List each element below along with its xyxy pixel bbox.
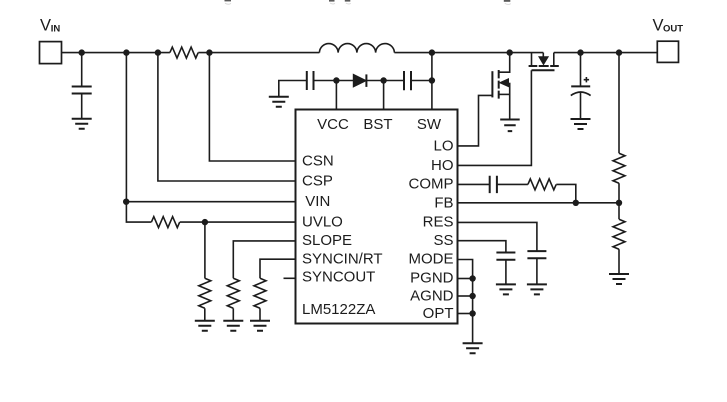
node SW rail [429,49,435,55]
ground RSLOPE [223,321,243,331]
svg-text:VIN: VIN [305,193,330,210]
node pgnd [469,275,475,281]
node fb-divider [616,200,622,206]
capacitor CRES [527,251,546,258]
IC U1 LM5122ZA box [296,110,458,324]
ground CRES [527,284,547,294]
node divider top [616,49,622,55]
ground RT [250,321,270,331]
wire UVLO to pin [180,221,296,223]
wire RUV2 drop [204,222,206,278]
capacitor COUT electrolytic [571,53,591,119]
terminal VOUT [657,41,678,62]
resistor RCOMP [528,179,556,190]
wire RUV2 to ground [204,308,206,320]
svg-text:SLOPE: SLOPE [302,232,352,249]
wire rail to switch node [394,52,543,54]
node rail-csp [155,49,161,55]
node bst [380,77,386,83]
wire HO gate lead [458,70,532,165]
svg-text:CSN: CSN [302,153,334,170]
wire diode to BST node [366,80,404,82]
label VIN [40,17,60,35]
node rail-vin [123,49,129,55]
svg-text:FB: FB [434,194,453,211]
capacitor CVCC [307,71,314,90]
svg-text:SW: SW [417,116,442,133]
resistor RUV2 [199,278,211,308]
node Q1 drain [507,49,513,55]
wire RES branch [458,222,537,251]
capacitor CBST [404,71,411,90]
label VOUT [653,17,684,35]
diode DBST [353,74,366,87]
wire input rail [62,52,320,54]
svg-text:COMP: COMP [409,176,454,193]
wire RCOMP to FB node [556,184,576,202]
wire SYNCOUT stub [284,277,296,279]
wire MODE branch [458,260,473,279]
svg-text:HO: HO [431,157,454,174]
wire SYNCIN/RT branch [260,259,296,278]
node uvlo [202,219,208,225]
svg-text:VCC: VCC [317,116,349,133]
ground RFB2 [609,274,629,284]
transistor Q2 high-side NMOS [529,53,559,71]
wire CSS to ground [505,260,507,284]
svg-text:V: V [40,17,51,35]
wire RT to ground [259,308,261,320]
pin labels right [409,138,454,323]
resistor RUV1 [151,217,179,228]
resistor RS current sense [170,47,198,58]
svg-text:SYNCOUT: SYNCOUT [302,269,375,286]
wire VCC cap left [279,81,307,97]
svg-text:CSP: CSP [302,173,333,190]
wire RFB2 to ground [618,249,620,274]
svg-text:MODE: MODE [409,251,454,268]
resistor RFB2 [613,219,625,249]
ground IC pins [463,343,483,353]
wire FB row [458,202,620,204]
svg-text:RES: RES [423,214,454,231]
wire RFB1 to FB node [618,183,620,219]
svg-text:OUT: OUT [663,23,683,34]
node opt [469,310,475,316]
ground COUT [571,119,591,129]
svg-text:V: V [653,17,664,35]
wire OPT stub [458,313,473,315]
wire FB divider top [618,53,620,154]
capacitor CCOMP [490,176,497,193]
inductor L1 [319,44,394,53]
wire SW pin [431,53,433,110]
pin labels left [302,153,383,318]
svg-text:BST: BST [363,116,392,133]
ground RUV2 [195,321,215,331]
wire AGND stub [458,295,473,297]
wire CSN branch [209,53,295,161]
node rail-csn [206,49,212,55]
pin labels top [317,116,442,133]
ground CSS [496,284,516,294]
wire VCC pin [335,81,337,110]
wire SS branch [458,241,506,253]
node vin-uvlo [123,199,129,205]
wire CCOMP to RCOMP [497,183,528,185]
svg-text:AGND: AGND [410,287,454,304]
wire CSP branch [158,53,296,181]
wire gnd pins drop [472,279,474,344]
node agnd [469,293,475,299]
wire UVLO branch [126,202,151,222]
svg-text:PGND: PGND [410,270,454,287]
node rail-cin [79,49,85,55]
wire COMP pin [458,183,490,185]
ground VCC cap [269,97,289,107]
transistor Q1 low-side NMOS [492,53,509,119]
svg-text:UVLO: UVLO [302,213,343,230]
svg-text:OPT: OPT [423,305,454,322]
wire CBST to SW [411,80,432,82]
wire RSLOPE to ground [232,308,234,320]
wire SLOPE branch [233,241,295,278]
ground input cap [72,119,92,129]
node cout [577,49,583,55]
capacitor CSS [496,253,515,260]
wire LO gate lead [458,95,493,145]
svg-text:LM5122ZA: LM5122ZA [302,301,375,318]
svg-text:LO: LO [433,138,453,155]
resistor RSLOPE [227,278,239,308]
node comp-fb [573,200,579,206]
svg-text:SYNCIN/RT: SYNCIN/RT [302,250,383,267]
wire BST pin [383,81,385,110]
terminal VIN [40,42,62,64]
resistor RFB1 [613,153,625,183]
svg-text:SS: SS [433,232,453,249]
node sw-bst [429,77,435,83]
resistor RT [254,278,266,308]
wire output rail [554,52,658,54]
svg-text:IN: IN [51,23,61,34]
ground Q1 source [500,120,520,132]
wire PGND stub [458,278,473,280]
capacitor CIN [72,53,92,119]
wire CRES to ground [536,258,538,284]
clipped title descenders [225,0,511,4]
node vcc [333,77,339,83]
wire VIN pin branch [126,53,295,202]
wire CVCC to VCC node [314,80,354,82]
